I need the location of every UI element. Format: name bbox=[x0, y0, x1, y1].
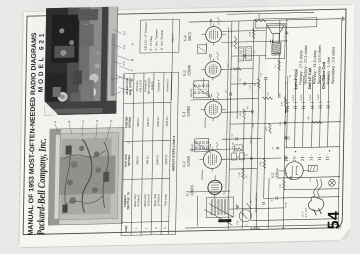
wire vertical x30 bbox=[229, 208, 284, 209]
wire vertical x40 bbox=[264, 197, 339, 199]
svg-text:25M: 25M bbox=[280, 122, 282, 126]
resistor block R-candohm bbox=[308, 165, 317, 171]
svg-text:1st I-F Coil: 1st I-F Coil bbox=[293, 69, 298, 90]
svg-text:Secondary - 3.5 ohms: Secondary - 3.5 ohms bbox=[331, 47, 336, 84]
wire vertical x70 bbox=[229, 168, 257, 171]
wire vertical x183 bbox=[231, 54, 266, 57]
alignment table bbox=[121, 72, 178, 235]
wire vertical x18 bbox=[250, 219, 338, 221]
wire rail y273 bbox=[295, 76, 296, 148]
wire vertical x208 bbox=[222, 29, 266, 32]
svg-text:20M: 20M bbox=[308, 116, 310, 120]
wire vertical x60 bbox=[277, 177, 339, 178]
svg-text:10MFD: 10MFD bbox=[318, 94, 320, 101]
wire vertical x225 bbox=[227, 12, 314, 14]
wire vertical x48 bbox=[189, 190, 229, 193]
tube V-3 12AV6 bbox=[199, 147, 225, 172]
svg-text:35W4: 35W4 bbox=[274, 168, 279, 178]
coupling box bbox=[197, 45, 206, 54]
wire rail y281 bbox=[303, 76, 304, 148]
photo: chassis top view bbox=[44, 7, 118, 116]
wire heater string bbox=[226, 27, 229, 191]
IF transformer T2 bbox=[194, 81, 209, 98]
AC power plug bbox=[308, 179, 324, 215]
wire rail y265 bbox=[287, 76, 288, 148]
wire vertical x12 bbox=[185, 225, 338, 228]
wire rail y222 bbox=[242, 119, 244, 229]
svg-text:20MFD: 20MFD bbox=[301, 94, 303, 101]
wire AVC bus bbox=[196, 196, 199, 226]
photo callout labels bbox=[122, 30, 135, 93]
wire vertical x218 bbox=[189, 19, 342, 22]
resistors bbox=[242, 169, 245, 179]
tube socket V-1 bold circle bbox=[208, 175, 222, 199]
wire vertical x48 bbox=[284, 189, 339, 190]
wire rail y298 bbox=[320, 75, 321, 147]
svg-text:100K: 100K bbox=[279, 92, 281, 98]
wire rail y215 bbox=[237, 21, 239, 119]
capacitors bbox=[251, 157, 253, 160]
svg-text:FUSE: FUSE bbox=[286, 201, 288, 207]
wire vertical x197 bbox=[222, 41, 287, 42]
output transformer T3 bbox=[272, 42, 281, 56]
wire vertical x90 bbox=[285, 147, 340, 148]
tube V-1 12BE6 bbox=[201, 98, 226, 122]
svg-text:6.3V: 6.3V bbox=[310, 177, 312, 182]
svg-text:STEP: STEP bbox=[124, 225, 128, 232]
wire vertical x90 bbox=[190, 148, 230, 151]
svg-text:47K: 47K bbox=[268, 92, 270, 96]
trimmer legend box bbox=[140, 19, 180, 53]
svg-text:54: 54 bbox=[326, 211, 343, 230]
photo: chassis underside view bbox=[48, 127, 124, 225]
trimmer arrows bbox=[204, 209, 232, 226]
wire rail y243 bbox=[264, 78, 266, 198]
oscillator coil bbox=[206, 197, 233, 223]
svg-text:A.C.-D.C.: A.C.-D.C. bbox=[305, 207, 308, 218]
ground symbols bbox=[285, 155, 287, 160]
pilot lamp bbox=[328, 179, 335, 186]
svg-text:10M: 10M bbox=[266, 127, 268, 131]
wire top boundary bbox=[171, 18, 172, 100]
wire rail y208 bbox=[228, 21, 232, 229]
svg-text:2nd I-F Coil: 2nd I-F Coil bbox=[307, 68, 312, 90]
hatched resistors R-out bbox=[238, 47, 244, 61]
wire rail y236 bbox=[256, 56, 259, 229]
wire vertical x100 bbox=[222, 137, 262, 140]
page frame border bbox=[23, 9, 346, 235]
wire rail y248 bbox=[267, 178, 270, 228]
wire vertical x80 bbox=[221, 158, 281, 159]
IF transformer T1 bbox=[195, 139, 209, 152]
svg-text:30MFD: 30MFD bbox=[310, 94, 312, 101]
wire vertical x140 bbox=[190, 99, 258, 100]
svg-text:20MFD: 20MFD bbox=[293, 94, 295, 101]
svg-text:Oscillator Coil: Oscillator Coil bbox=[321, 62, 326, 89]
junction dots bbox=[228, 190, 229, 191]
wire rail y290 bbox=[312, 75, 313, 147]
wire vertical x170 bbox=[221, 68, 253, 71]
wire rail y256 bbox=[278, 20, 279, 98]
wire vertical x115 bbox=[230, 122, 340, 124]
paper corner fold shadow bbox=[341, 227, 350, 239]
wire rail y318 bbox=[338, 19, 342, 227]
speaker SP1 bbox=[255, 18, 317, 59]
wire vertical x155 bbox=[231, 83, 259, 86]
component clusters near tubes bbox=[217, 17, 219, 25]
wire vertical x127 bbox=[222, 111, 252, 114]
svg-text:40M: 40M bbox=[286, 171, 288, 175]
wire rail y263 bbox=[283, 20, 287, 228]
wire rail y230 bbox=[250, 21, 254, 219]
tube V-5 35W4 bbox=[279, 161, 309, 180]
tube V-2 12BA6 bbox=[201, 58, 225, 81]
component cluster mid-left bbox=[231, 153, 236, 160]
volume control potentiometer bbox=[239, 210, 251, 222]
ground at coil bbox=[237, 204, 239, 209]
on-off switch bbox=[247, 203, 251, 209]
tube V-4 50C5 bbox=[201, 23, 225, 46]
svg-text:VOL: VOL bbox=[236, 219, 239, 225]
wire rail y306 bbox=[328, 75, 329, 147]
